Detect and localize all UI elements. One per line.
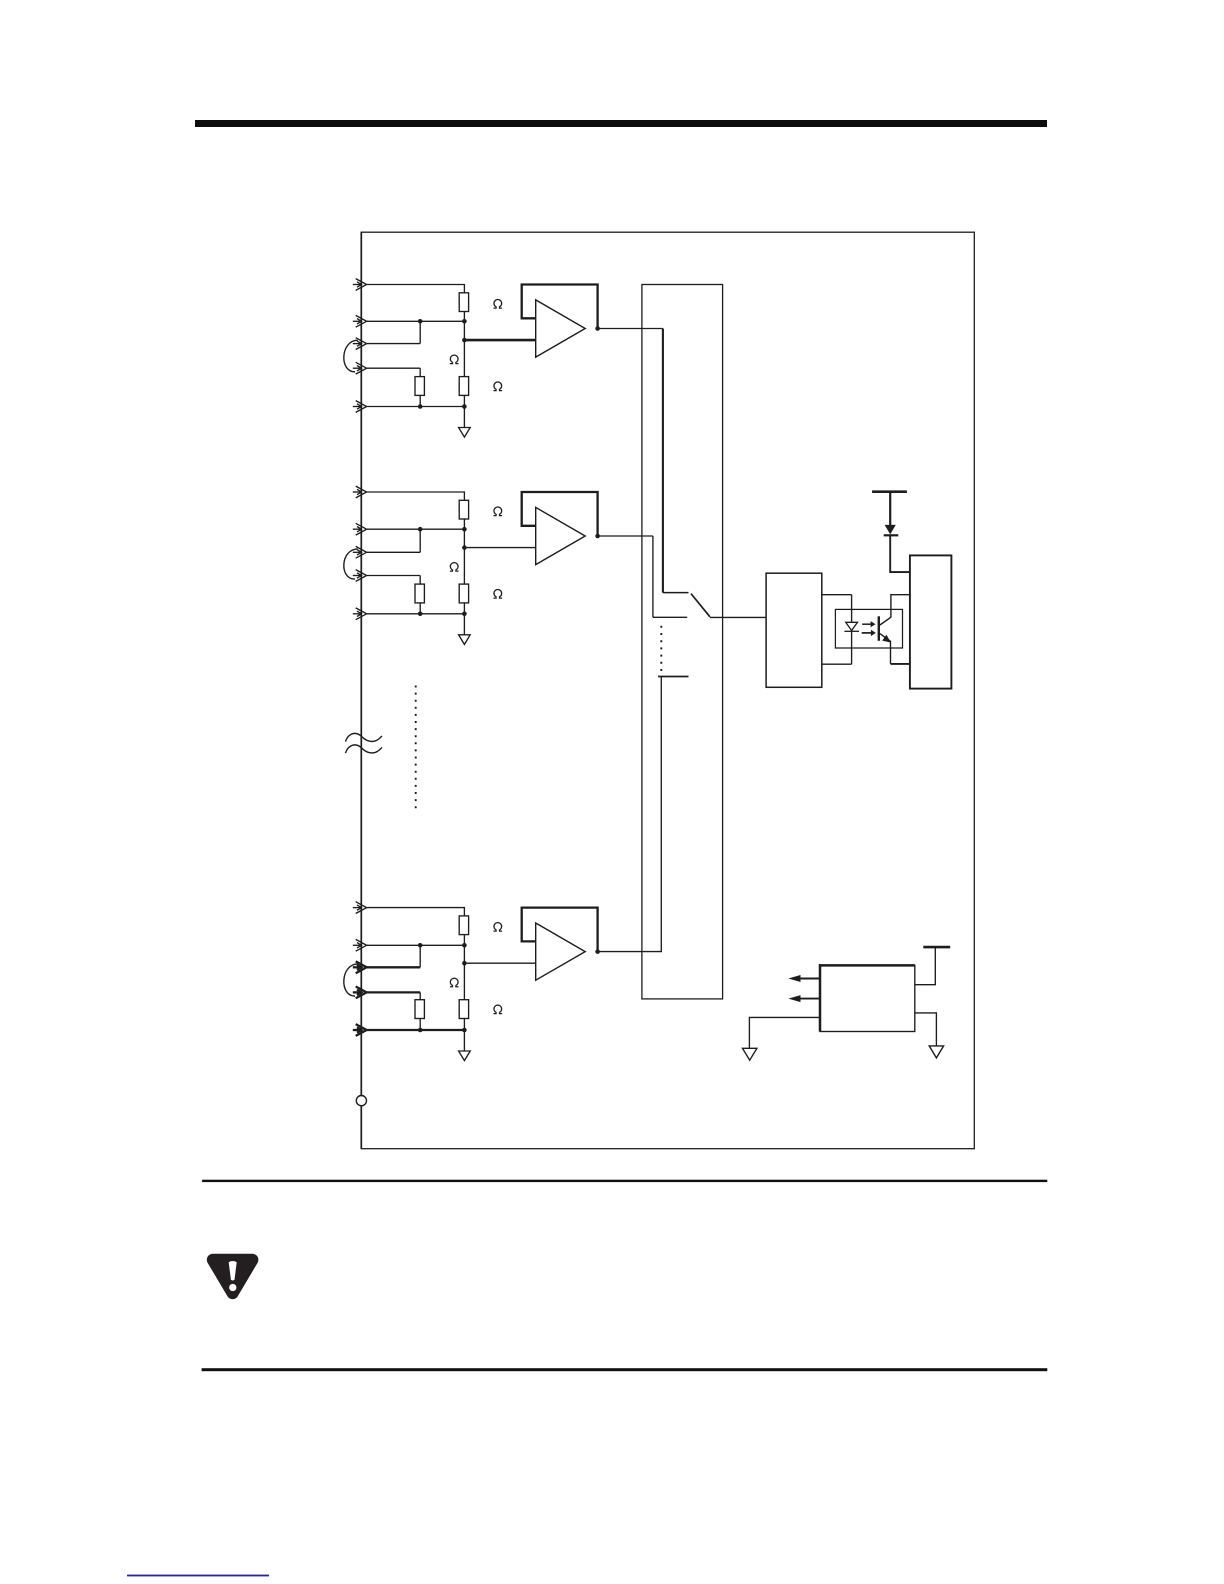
schematic frame [361, 232, 974, 1148]
wire CH2 input 4 [367, 575, 421, 577]
multiplexer block [642, 285, 723, 999]
wire CH3 input 4 [367, 991, 421, 993]
wire CH1 switch contact [663, 592, 689, 594]
analog input break squiggle [345, 733, 382, 741]
op-amp A3 feedback loop [522, 908, 598, 952]
op-amp A1 feedback loop [522, 285, 598, 329]
CH1 input connector pin 2 [353, 315, 367, 327]
diode D1 [885, 525, 896, 535]
resistor R23 [415, 584, 424, 603]
ground CH2 [459, 635, 471, 645]
wire CH2 input 1 to R21 [367, 492, 465, 500]
opto light arrow upper [862, 623, 871, 625]
diode D1 cathode bar [884, 534, 899, 536]
wire CH1 input 1 to R11 [367, 285, 465, 293]
wire CH1 op-amp input [464, 339, 535, 342]
label R21 value Ω [494, 507, 503, 516]
wire U5 ground left [749, 1017, 820, 1048]
junction CH2 node A left [418, 527, 423, 532]
wire CH2 bus to switch [652, 536, 654, 617]
footer link rule (blue) [127, 1575, 269, 1577]
power output arrow upper [800, 978, 820, 980]
junction CH1 op-amp tap [462, 338, 467, 343]
CH2 input connector pin 3 [353, 546, 367, 558]
frame terminal circle [356, 1096, 366, 1106]
CH2 input connector pin 4 [353, 570, 367, 582]
CH1 input connector pin 1 [353, 279, 367, 291]
wire A2 output [598, 535, 653, 537]
wire R32 bottom stub [463, 1019, 465, 1031]
wire LED cathode to U2 [822, 663, 852, 665]
wire Q1 emitter to U3 [891, 663, 910, 665]
wire CHn switch contact [658, 676, 688, 678]
section rule upper [202, 1180, 1047, 1182]
CH2 input connector pin 2 [353, 523, 367, 535]
wire CH3 input 1 to R31 [367, 908, 465, 916]
ground symbol left of U5 [743, 1048, 757, 1060]
wire CH3 input 4 drop to R33 [419, 992, 421, 999]
label R23 value Ω [494, 589, 503, 598]
wire +V to diode D1 [889, 492, 891, 526]
junction CH2 bottom left [418, 612, 423, 617]
CH3 input connector pin 1 [353, 902, 367, 914]
warning exclamation dot [229, 1284, 236, 1291]
wire CH3 op-amp input [464, 962, 535, 964]
junction CH1 bottom right [462, 404, 467, 409]
resistor R22 [459, 584, 468, 603]
junction CH3 node A right [462, 943, 467, 948]
wire CH3 input 3 riser [419, 945, 421, 967]
CH3 input connector pin 2 [353, 939, 367, 951]
shield loop arc CH3 [344, 964, 358, 996]
op-amp A2 [536, 507, 586, 564]
DC/DC converter block U5 [820, 965, 915, 1031]
+V supply bar (opto) [872, 490, 907, 493]
wire R12 bottom stub [463, 395, 465, 406]
top title rule [195, 120, 1047, 127]
wire switch output [710, 616, 766, 618]
optocoupler U4 package [835, 609, 902, 648]
opto LED cathode bar [844, 630, 859, 632]
wire U5 +V right [915, 947, 936, 985]
wire R13 bottom stub [419, 395, 421, 406]
wire CH1 input 4 [367, 367, 421, 369]
resistor R32 [459, 1000, 468, 1019]
label R32 value Ω [450, 978, 459, 987]
op-amp A1 [536, 300, 586, 357]
junction CH2 op-amp tap [462, 545, 467, 550]
wire D1 to output block [890, 535, 910, 572]
opto light arrow lower [862, 632, 872, 634]
resistor R31 [459, 916, 468, 935]
junction A3 output [595, 949, 600, 954]
opto LED triangle [846, 622, 858, 630]
wire CH2 input 4 drop to R23 [419, 576, 421, 585]
junction CH1 node A right [462, 319, 467, 324]
CH2 input connector pin 5 [353, 608, 367, 620]
wire A3 output [598, 951, 662, 953]
wire CH3 input 2 [367, 944, 465, 946]
shield loop arc CH1 [344, 340, 358, 372]
op-amp A2 feedback loop [522, 492, 598, 536]
wire CH1 ground stub [463, 407, 465, 428]
junction CH3 op-amp tap [462, 961, 467, 966]
wire CH1 input 2 [367, 320, 465, 322]
CH1 input connector pin 3 [353, 338, 367, 350]
CH3 input connector pin 3 [353, 961, 367, 973]
wire CH2 switch contact [653, 616, 687, 618]
wire CH2 input 3 [367, 551, 421, 553]
ground CH1 [459, 428, 471, 438]
wire CH2 ground stub [463, 614, 465, 635]
wire CH1 input 4 drop to R13 [419, 368, 421, 376]
wire R21 bottom to divider [463, 519, 465, 584]
mux channel continuation dots [660, 626, 662, 671]
wire CH2 op-amp input [464, 547, 535, 549]
wire CH2 input 3 riser [419, 529, 421, 552]
wire R22 bottom stub [463, 603, 465, 614]
ground symbol right of U5 [929, 1046, 943, 1058]
resistor R13 [415, 377, 424, 396]
warning icon triangle [213, 1260, 253, 1293]
junction CH3 bottom left [418, 1028, 423, 1033]
label R11 value Ω [494, 299, 503, 308]
wire R31 bottom to divider [463, 935, 465, 1000]
resistor R11 [459, 293, 468, 312]
wire CH3 return line [367, 1029, 465, 1031]
CH3 input connector pin 4 [353, 987, 367, 999]
junction CH2 node A right [462, 527, 467, 532]
wire CH3 input 3 [367, 966, 421, 968]
ground CH3 [459, 1051, 471, 1061]
U5 top edge (thick) [819, 964, 915, 967]
wire CH1 bus to switch [662, 329, 664, 593]
wire A1 output [598, 328, 663, 330]
CH3 input connector pin 5 [353, 1024, 367, 1036]
channel continuation dots [415, 686, 417, 809]
label R12 value Ω [450, 355, 459, 364]
junction CH1 bottom left [418, 404, 423, 409]
junction CH3 bottom right [462, 1028, 467, 1033]
wire CH2 return line [367, 613, 465, 615]
resistor R12 [459, 377, 468, 396]
section rule lower [202, 1368, 1048, 1371]
junction CH2 bottom right [462, 612, 467, 617]
driver block U2 [766, 573, 822, 687]
label R31 value Ω [494, 923, 503, 932]
junction CH3 node A left [418, 943, 423, 948]
CH1 input connector pin 4 [353, 362, 367, 374]
label R13 value Ω [494, 382, 503, 391]
wire CH2 input 2 [367, 528, 465, 530]
U5 left edge (thick) [819, 964, 822, 1031]
wire LED vertical [851, 595, 853, 665]
label R33 value Ω [494, 1005, 503, 1014]
output block U3 [910, 555, 952, 688]
wire R23 bottom stub [419, 603, 421, 614]
resistor R33 [415, 1000, 424, 1019]
wire U5 ground right [915, 1013, 937, 1046]
schematic frame left border (thick) [360, 232, 362, 1148]
wire CH3 ground stub [463, 1030, 465, 1051]
CH2 input connector pin 1 [353, 486, 367, 498]
switch arm SW1 [691, 594, 710, 617]
junction A1 output [595, 326, 600, 331]
junction CH1 node A left [418, 319, 423, 324]
wire CH1 input 3 riser [419, 321, 421, 343]
power output arrow lower [800, 998, 820, 1000]
shield loop arc CH2 [344, 549, 358, 579]
wire U2 to LED anode [822, 594, 852, 596]
junction A2 output [595, 534, 600, 539]
op-amp A3 [536, 923, 586, 980]
wire CH1 input 3 [367, 343, 421, 345]
opto transistor Q1 base bar [878, 616, 880, 641]
wire CH1 return line [367, 406, 465, 408]
wire R11 bottom to divider [463, 312, 465, 377]
opto transistor Q1 emitter [880, 634, 891, 664]
label R22 value Ω [450, 563, 459, 572]
resistor R21 [459, 500, 468, 519]
opto transistor Q1 collector [880, 595, 910, 625]
wire CHn bus [660, 677, 662, 952]
+V supply bar (DC/DC) [923, 946, 950, 949]
wire R33 bottom stub [419, 1019, 421, 1031]
warning exclamation mark [229, 1261, 237, 1280]
CH1 input connector pin 5 [353, 401, 367, 413]
Q1 emitter arrowhead [882, 635, 891, 643]
